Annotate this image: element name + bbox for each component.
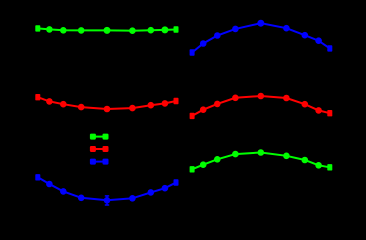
legend entry red (90, 146, 109, 152)
green curve right panel (markers) (190, 149, 333, 172)
blue curve left panel (markers) (35, 174, 178, 204)
green curve left panel (line) (38, 28, 176, 30)
red curve right panel (markers) (190, 93, 333, 119)
green curve right panel (line) (192, 153, 330, 170)
red curve left panel (line) (38, 97, 176, 109)
legend entry green (90, 134, 109, 140)
blue curve left panel (line) (38, 177, 176, 200)
red curve right panel (line) (192, 96, 330, 116)
blue curve right panel (line) (192, 23, 330, 52)
green curve left panel (markers) (35, 25, 178, 34)
red curve left panel (markers) (35, 94, 178, 112)
blue curve left panel error bar on point 5 (105, 196, 109, 205)
blue curve right panel (markers) (190, 20, 333, 56)
legend entry blue (90, 159, 109, 165)
